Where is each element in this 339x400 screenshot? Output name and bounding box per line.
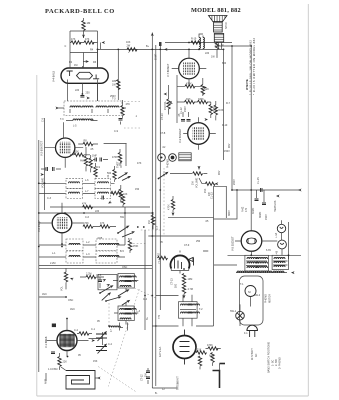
svg-text:AVC: AVC [70,308,75,311]
svg-text:C-7: C-7 [156,225,159,230]
svg-text:HEATERS: HEATERS [274,200,277,212]
svg-text:470: 470 [245,207,248,212]
svg-text:PHONO: PHONO [265,294,268,303]
svg-text:C-1: C-1 [91,328,96,331]
svg-text:R-10: R-10 [222,124,228,127]
svg-text:B-6: B-6 [128,238,132,241]
svg-text:AVC: AVC [42,293,47,296]
svg-text:C-9: C-9 [114,130,119,133]
svg-text:SPKR: SPKR [225,22,228,29]
svg-text:C-2: C-2 [74,329,79,332]
svg-text:5.6K: 5.6K [219,109,224,112]
svg-text:770: 770 [158,314,161,319]
svg-text:.0O5: .0O5 [97,237,103,240]
svg-text:10M: 10M [188,278,193,281]
svg-text:47K: 47K [85,38,90,41]
svg-text:47K: 47K [137,162,142,165]
svg-text:MOTOR: MOTOR [269,294,272,303]
svg-text:470K: 470K [186,83,192,86]
svg-text:V-1 6BE6: V-1 6BE6 [44,336,48,348]
svg-text:470K: 470K [168,204,171,210]
svg-text:VOL: VOL [61,285,64,291]
svg-text:1M: 1M [192,182,195,185]
svg-text:B-: B- [155,392,158,395]
svg-text:200V: 200V [233,179,236,185]
svg-text:C-6: C-6 [85,216,90,219]
svg-text:CL-12: CL-12 [180,107,183,114]
svg-text:C-5: C-5 [42,117,45,122]
svg-text:OSC: OSC [68,299,74,302]
svg-text:150V: 150V [184,106,187,112]
svg-text:220: 220 [75,89,80,92]
svg-text:C: C [65,45,67,48]
svg-text:1M VOL: 1M VOL [164,100,167,110]
svg-text:* R-10 IS 560. 1W ON MODEL 882: * R-10 IS 560. 1W ON MODEL 882 [249,40,253,95]
svg-text:MMF: MMF [203,250,209,253]
svg-text:R-9: R-9 [96,166,101,169]
svg-text:CT-5: CT-5 [96,274,102,277]
svg-text:560: 560 [107,172,112,175]
svg-text:1.COSM: 1.COSM [48,368,57,371]
svg-text:PACKARD-BELL CO: PACKARD-BELL CO [45,8,115,15]
svg-text:15K: 15K [93,360,98,363]
svg-text:BAND SWITCH POSITIONS: BAND SWITCH POSITIONS [268,342,271,373]
svg-text:30MF: 30MF [252,207,255,214]
svg-text:1M: 1M [145,374,148,377]
svg-text:250: 250 [196,240,201,243]
svg-text:15K: 15K [204,188,207,193]
svg-text:C-2: C-2 [108,343,113,346]
svg-text:470K: 470K [112,156,118,159]
svg-text:R-7: R-7 [226,102,231,105]
svg-text:6.3V: 6.3V [266,249,271,252]
svg-text:CT-9: CT-9 [184,244,190,247]
svg-text:2.2M: 2.2M [50,262,55,265]
svg-text:220: 220 [205,52,210,55]
svg-text:10K: 10K [123,193,128,196]
svg-text:500: 500 [175,283,178,288]
svg-text:SW: SW [120,216,125,219]
svg-text:CT-13: CT-13 [171,278,174,285]
svg-text:360V: 360V [228,210,231,216]
svg-text:117V.60CY: 117V.60CY [251,348,254,360]
svg-text:1M: 1M [74,64,77,67]
svg-text:330K: 330K [198,98,204,101]
svg-text:600: 600 [222,62,227,65]
svg-text:R16: R16 [186,98,191,101]
svg-text:V-5 35Z5GT: V-5 35Z5GT [231,236,235,251]
svg-text:90V: 90V [218,170,221,175]
svg-text:V-2 6SK7GT: V-2 6SK7GT [40,141,44,156]
svg-text:CL-15: CL-15 [257,177,260,184]
svg-text:AC: AC [255,353,258,357]
svg-text:1/2 V-1A: 1/2 V-1A [158,346,162,357]
svg-text:12K: 12K [205,88,210,91]
svg-text:MODEL 881, 882: MODEL 881, 882 [191,7,241,14]
svg-text:VOLUME: VOLUME [196,177,199,188]
svg-text:CL-13: CL-13 [211,192,214,199]
svg-text:PHONO: PHONO [166,159,169,168]
svg-text:1M: 1M [148,221,151,224]
svg-text:V-7 6K6GT: V-7 6K6GT [166,63,170,77]
svg-text:450V: 450V [265,214,268,220]
svg-text:F-1: F-1 [244,332,248,335]
svg-text:51K: 51K [197,349,202,352]
svg-text:47K: 47K [82,203,87,206]
svg-text:470K: 470K [83,222,89,225]
svg-text:R-19: R-19 [191,38,197,41]
svg-text:FILTER: FILTER [120,160,123,168]
svg-text:SW-1: SW-1 [230,310,237,313]
svg-text:CT-8: CT-8 [160,132,166,135]
svg-text:250: 250 [86,92,91,95]
svg-text:90V: 90V [228,143,231,148]
svg-text:3- PHONO: 3- PHONO [279,357,282,369]
svg-text:150V: 150V [224,150,230,153]
svg-text:V-3 50L6GT: V-3 50L6GT [178,128,182,143]
svg-text:B-5: B-5 [120,250,124,253]
svg-text:CT-10: CT-10 [161,113,164,120]
svg-text:36MF: 36MF [259,211,262,218]
svg-text:C-3: C-3 [47,197,52,200]
svg-text:220: 220 [95,210,100,213]
svg-text:250V: 250V [110,95,116,98]
svg-text:2.2M: 2.2M [86,273,91,276]
svg-text:V-4 6AL5: V-4 6AL5 [52,70,56,82]
svg-text:47K: 47K [126,103,131,106]
svg-text:* R-20 IS OMITTED ON MODEL 882: * R-20 IS OMITTED ON MODEL 882 [252,37,256,95]
svg-text:AVC: AVC [80,160,85,163]
svg-text:150: 150 [135,188,140,191]
svg-text:47K: 47K [71,38,76,41]
svg-text:W NOTE: W NOTE [245,79,249,90]
svg-text:SW-2: SW-2 [254,294,261,297]
svg-text:4.7M: 4.7M [188,288,193,291]
svg-text:22K: 22K [63,361,68,364]
svg-text:47K: 47K [100,222,105,225]
svg-text:1MF: 1MF [92,155,97,158]
svg-text:470K: 470K [133,245,139,248]
svg-text:470K: 470K [207,344,213,347]
svg-text:CT-12: CT-12 [141,374,144,381]
svg-text:LT-4: LT-4 [163,171,166,176]
svg-text:L-4A: L-4A [275,232,278,238]
svg-text:100K: 100K [73,151,79,154]
